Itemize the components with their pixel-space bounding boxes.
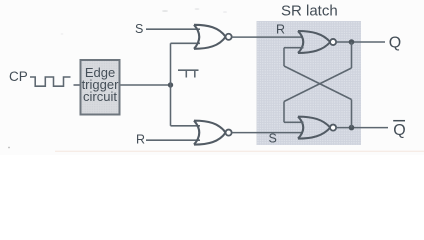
wire clock branch to gate G1 xyxy=(171,42,201,44)
wire Q feedback: down to G4 input xyxy=(283,102,285,123)
svg-text:circuit: circuit xyxy=(83,89,117,104)
spike waveform symbol xyxy=(178,70,199,77)
NOR gate G3 (latch top) xyxy=(298,31,336,53)
svg-text:Q: Q xyxy=(393,122,405,139)
NOR gate G1 (stage1 top) xyxy=(194,25,232,49)
wire Qbar feedback: up to G3 input xyxy=(283,48,285,66)
svg-text:CP: CP xyxy=(9,69,28,84)
SR latch shaded region xyxy=(257,21,362,145)
wire Q feedback into G4 xyxy=(284,121,304,123)
node Q junction xyxy=(349,39,355,45)
wire Qbar feedback: up from Qbar node xyxy=(351,100,353,128)
junction node clock branch xyxy=(168,82,173,87)
wire clock branch vertical xyxy=(170,43,172,126)
wire G4 output to Qbar xyxy=(336,127,388,129)
wire clock branch to gate G2 xyxy=(171,125,201,127)
overbar of Qbar xyxy=(393,120,405,122)
svg-text:S: S xyxy=(269,132,277,146)
wire CP to edge trigger box xyxy=(74,84,80,86)
wire Q feedback diagonal xyxy=(284,68,352,102)
wire Qbar feedback into G3 xyxy=(284,47,304,49)
svg-text:S: S xyxy=(135,22,143,36)
edge trigger circuit box U1 xyxy=(81,60,120,115)
node Qbar junction xyxy=(349,125,355,131)
svg-text:SR latch: SR latch xyxy=(281,3,338,20)
wire box output to junction xyxy=(121,84,171,86)
svg-text:R: R xyxy=(136,133,145,147)
svg-text:Q: Q xyxy=(389,34,401,51)
wire G1 output to latch gate G3 (R of latch) xyxy=(232,36,303,38)
svg-text:R: R xyxy=(276,23,285,37)
NOR gate G2 (stage1 bottom) xyxy=(194,121,232,145)
wire Qbar feedback diagonal xyxy=(284,66,352,100)
wire Q feedback: down from Q node xyxy=(351,42,353,68)
wire G2 output to latch gate G4 (S of latch) xyxy=(232,132,303,134)
wire S input xyxy=(146,28,200,30)
CP clock waveform symbol xyxy=(30,77,71,86)
NOR gate G4 (latch bottom) xyxy=(298,117,336,139)
wire R input xyxy=(146,139,200,141)
wire G3 output to Q xyxy=(336,41,385,43)
